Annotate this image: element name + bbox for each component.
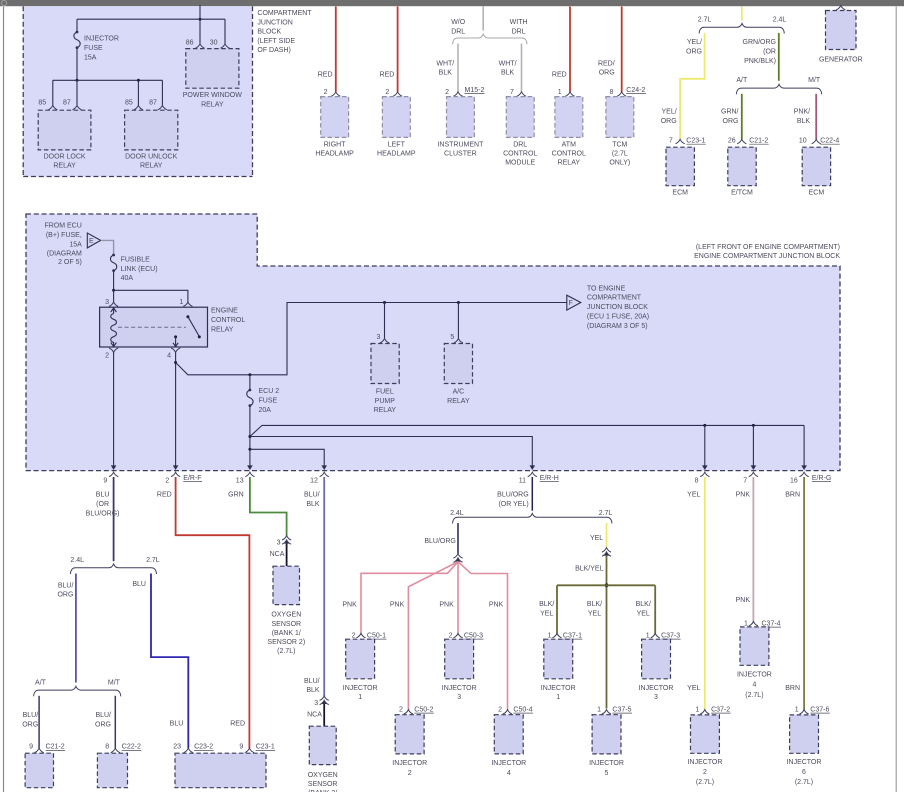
svg-text:ORG: ORG xyxy=(686,49,702,56)
svg-text:ORG: ORG xyxy=(723,118,739,125)
svg-text:C23-2: C23-2 xyxy=(194,744,213,751)
svg-text:YEL: YEL xyxy=(687,685,700,692)
node to fuel pump relay xyxy=(383,301,386,304)
svg-text:2: 2 xyxy=(498,707,502,714)
svg-text:LEFT: LEFT xyxy=(388,141,406,148)
svg-text:DRL: DRL xyxy=(512,28,526,35)
svg-text:2.4L: 2.4L xyxy=(773,16,787,23)
power window relay xyxy=(183,49,242,109)
svg-text:2 OF 5): 2 OF 5) xyxy=(58,259,82,266)
svg-text:BLU/: BLU/ xyxy=(58,582,74,589)
svg-text:RED: RED xyxy=(318,71,333,78)
pin 13 exit xyxy=(245,472,254,476)
svg-text:40A: 40A xyxy=(121,275,134,282)
svg-text:A/C: A/C xyxy=(453,389,465,396)
svg-text:C21-2: C21-2 xyxy=(46,744,65,751)
svg-text:2: 2 xyxy=(445,89,449,96)
fuel pump relay xyxy=(371,344,399,415)
wire relay pin2 down to exit 9 xyxy=(113,352,115,465)
svg-text:PNK: PNK xyxy=(342,602,357,609)
svg-text:TO ENGINE: TO ENGINE xyxy=(587,285,626,292)
wire ecu2 fuse down to exit 13 xyxy=(249,406,251,466)
wire drop pin87 door lock xyxy=(76,80,78,105)
wire PNK to injector 2 xyxy=(408,562,458,710)
svg-text:HEADLAMP: HEADLAMP xyxy=(377,151,416,158)
pin 7 C23-1 xyxy=(676,139,685,143)
svg-text:YEL: YEL xyxy=(588,610,601,617)
injector 2 (2.4L) xyxy=(392,715,427,777)
node xyxy=(76,79,79,82)
option split 2.4L / 2.7L xyxy=(70,557,159,574)
svg-text:FUEL: FUEL xyxy=(376,389,394,396)
svg-text:RED: RED xyxy=(380,71,395,78)
svg-text:ORG: ORG xyxy=(22,722,38,729)
oxygen sensor (bank 2) xyxy=(308,726,338,792)
svg-text:13: 13 xyxy=(236,478,244,485)
node xyxy=(112,289,115,292)
injector 2 (2.7L) xyxy=(688,715,723,786)
svg-text:4: 4 xyxy=(167,353,171,360)
wire YEL to injector 2 xyxy=(704,477,706,710)
pin 2 left headlamp xyxy=(393,92,402,96)
svg-text:RED/: RED/ xyxy=(598,60,615,67)
wire to injector fuse xyxy=(76,19,78,32)
svg-text:ONLY): ONLY) xyxy=(609,160,630,167)
svg-text:3: 3 xyxy=(105,299,109,306)
wire from top into box1 xyxy=(199,5,201,19)
box under C21-2 xyxy=(25,753,53,788)
svg-text:2: 2 xyxy=(399,707,403,714)
svg-text:RELAY: RELAY xyxy=(201,102,224,109)
svg-text:PNK: PNK xyxy=(736,492,751,499)
wire drop to injector 5 label xyxy=(587,601,602,617)
svg-text:1: 1 xyxy=(558,89,562,96)
svg-text:1: 1 xyxy=(556,694,560,701)
wire GRN/ORG 2.4L down xyxy=(778,33,780,81)
svg-text:(2.7L): (2.7L) xyxy=(696,779,714,786)
wire RED/ORG to tcm xyxy=(621,7,623,92)
svg-text:COMPARTMENT: COMPARTMENT xyxy=(587,295,642,302)
wire BRN to injector 6 xyxy=(803,477,805,710)
fusible link (ecu) 40A xyxy=(110,254,116,272)
injector 6 (2.7L) xyxy=(787,715,822,786)
a/c relay xyxy=(444,344,472,405)
svg-text:PUMP: PUMP xyxy=(375,398,396,405)
svg-text:3: 3 xyxy=(277,540,281,547)
svg-text:YEL: YEL xyxy=(540,610,553,617)
wire YEL 2.7L xyxy=(606,523,608,548)
to-arrow triangle F xyxy=(567,295,581,310)
wire horizontal to door relays xyxy=(53,79,163,81)
door unlock relay xyxy=(125,110,178,169)
pin 2 C50-2 xyxy=(404,710,413,714)
pin 1 C37-6 xyxy=(800,710,809,714)
svg-text:C37-2: C37-2 xyxy=(711,707,730,714)
svg-text:SENSOR 2): SENSOR 2) xyxy=(267,639,305,646)
svg-text:6: 6 xyxy=(802,769,806,776)
svg-text:BLU/: BLU/ xyxy=(304,492,320,499)
injector fuse 15A xyxy=(74,31,80,49)
wire diagonal to ecu2 fuse bus xyxy=(176,303,567,375)
svg-text:OXYGEN: OXYGEN xyxy=(271,612,301,619)
svg-text:M15-2: M15-2 xyxy=(465,87,485,94)
svg-text:INJECTOR: INJECTOR xyxy=(589,760,624,767)
svg-text:FUSE: FUSE xyxy=(84,45,103,52)
svg-text:BLU/ORG: BLU/ORG xyxy=(497,491,529,498)
svg-text:(DIAGRAM: (DIAGRAM xyxy=(47,250,82,257)
svg-text:PNK: PNK xyxy=(489,602,504,609)
svg-text:INJECTOR: INJECTOR xyxy=(737,672,772,679)
pin 1 atm control relay xyxy=(565,92,574,96)
svg-text:TCM: TCM xyxy=(612,141,627,148)
svg-text:C50-3: C50-3 xyxy=(464,633,483,640)
svg-text:9: 9 xyxy=(239,744,243,751)
pin 87 xyxy=(72,105,81,109)
svg-text:YEL: YEL xyxy=(590,535,603,542)
label: compartment junction block xyxy=(257,10,312,54)
wire BLU/ORG a/t xyxy=(38,696,40,748)
node on ecu2 fuse wire xyxy=(248,373,251,376)
svg-text:C23-1: C23-1 xyxy=(256,744,275,751)
browser chrome top bar xyxy=(0,0,904,6)
svg-text:BLK: BLK xyxy=(306,687,320,694)
svg-text:WHT/: WHT/ xyxy=(436,60,454,67)
pin 10 C22-4 xyxy=(812,139,821,143)
relay coil xyxy=(111,307,117,347)
svg-text:2: 2 xyxy=(703,769,707,776)
svg-text:INJECTOR: INJECTOR xyxy=(787,759,822,766)
generator xyxy=(819,11,863,64)
pin 2 C50-1 xyxy=(356,633,365,637)
svg-text:E: E xyxy=(89,238,94,245)
node bus upper xyxy=(248,435,251,438)
wire PNK to injector 4 xyxy=(752,477,754,622)
svg-text:1: 1 xyxy=(795,707,799,714)
svg-text:INJECTOR: INJECTOR xyxy=(688,759,723,766)
svg-text:C37-6: C37-6 xyxy=(810,707,829,714)
svg-text:YEL/: YEL/ xyxy=(687,39,702,46)
svg-text:8: 8 xyxy=(609,89,613,96)
tcm xyxy=(606,97,634,167)
svg-text:DRL: DRL xyxy=(513,141,527,148)
svg-text:NCA: NCA xyxy=(307,712,322,719)
svg-text:2.7L: 2.7L xyxy=(146,557,160,564)
svg-text:E/R-G: E/R-G xyxy=(812,475,831,482)
box under C22-2 xyxy=(97,753,127,788)
svg-text:RED: RED xyxy=(552,71,567,78)
svg-text:CONTROL: CONTROL xyxy=(503,151,537,158)
svg-text:FROM ECU: FROM ECU xyxy=(44,223,81,230)
svg-text:BLK: BLK xyxy=(797,118,811,125)
wire BLU/ORG 2.4L xyxy=(457,523,459,554)
wire drop exit 8 xyxy=(704,425,706,465)
wire fusible link to relay split xyxy=(113,271,115,291)
option split A/T / M/T xyxy=(736,77,821,94)
svg-text:WHT/: WHT/ xyxy=(499,60,517,67)
svg-text:2: 2 xyxy=(408,770,412,777)
svg-text:BLU: BLU xyxy=(170,721,184,728)
svg-text:2: 2 xyxy=(385,89,389,96)
pin 2 xyxy=(109,348,118,352)
pin 87 xyxy=(158,105,167,109)
wire WHT/BLK to drl control module xyxy=(521,44,523,92)
svg-text:A/T: A/T xyxy=(35,679,47,686)
left headlamp xyxy=(377,97,416,158)
svg-text:C24-2: C24-2 xyxy=(626,87,645,94)
svg-text:(2.7L): (2.7L) xyxy=(795,779,813,786)
pin 1 xyxy=(183,302,192,306)
svg-text:BLU/: BLU/ xyxy=(23,712,39,719)
option split 2.4L / 2.7L injectors xyxy=(450,510,612,523)
wire BLK/YEL branch bus xyxy=(557,584,655,586)
pin 2 C50-4 xyxy=(503,710,512,714)
svg-text:C50-2: C50-2 xyxy=(414,707,433,714)
pin 16 exit xyxy=(800,472,809,476)
pin 11 exit xyxy=(528,472,537,476)
svg-text:NCA: NCA xyxy=(270,551,285,558)
wire BLK/YEL down xyxy=(606,556,608,709)
svg-text:3: 3 xyxy=(457,694,461,701)
svg-text:30: 30 xyxy=(210,40,218,47)
right frame line xyxy=(895,7,897,792)
svg-text:1: 1 xyxy=(548,633,552,640)
svg-text:(LEFT FRONT OF ENGINE COMPARTM: (LEFT FRONT OF ENGINE COMPARTMENT) xyxy=(696,244,840,251)
svg-text:C50-1: C50-1 xyxy=(367,633,386,640)
svg-text:(B+) FUSE,: (B+) FUSE, xyxy=(46,232,82,239)
svg-text:ORG: ORG xyxy=(57,592,73,599)
svg-text:GRN/ORG: GRN/ORG xyxy=(743,39,776,46)
svg-text:RELAY: RELAY xyxy=(140,163,163,170)
ecm (left) xyxy=(666,147,694,196)
svg-text:85: 85 xyxy=(125,100,133,107)
ecu 2 fuse 20A xyxy=(249,375,251,390)
svg-text:BLU/: BLU/ xyxy=(304,678,320,685)
node blk/yel xyxy=(605,583,609,587)
svg-text:ENGINE COMPARTMENT JUNCTION BL: ENGINE COMPARTMENT JUNCTION BLOCK xyxy=(694,253,840,260)
wire BLU 2.7L jog xyxy=(151,574,188,749)
svg-text:C22-2: C22-2 xyxy=(122,744,141,751)
pin 2 M15-2 xyxy=(453,92,462,96)
svg-text:INJECTOR: INJECTOR xyxy=(541,685,576,692)
svg-text:ENGINE: ENGINE xyxy=(211,308,238,315)
svg-text:YEL: YEL xyxy=(687,492,700,499)
ecm (right) xyxy=(802,147,830,196)
svg-text:JUNCTION: JUNCTION xyxy=(257,19,292,26)
node at feed split xyxy=(199,18,202,21)
svg-text:INJECTOR: INJECTOR xyxy=(639,685,674,692)
svg-text:WITH: WITH xyxy=(510,19,528,26)
e/tcm xyxy=(728,147,756,196)
svg-text:8: 8 xyxy=(695,478,699,485)
exit arrows at block bottom xyxy=(111,465,117,470)
svg-text:BLK: BLK xyxy=(306,501,320,508)
svg-text:INSTRUMENT: INSTRUMENT xyxy=(437,141,484,148)
svg-text:INJECTOR: INJECTOR xyxy=(343,685,378,692)
engine control relay box xyxy=(100,307,208,347)
option split w/o drl / with drl xyxy=(451,19,527,44)
svg-text:RELAY: RELAY xyxy=(374,407,397,414)
pin 3 xyxy=(109,302,118,306)
svg-text:1: 1 xyxy=(597,707,601,714)
svg-text:COMPARTMENT: COMPARTMENT xyxy=(257,10,312,17)
node long bus to exit 7 xyxy=(752,424,755,427)
oxygen sensor (bank 1 / sensor 2) xyxy=(267,566,305,655)
wire fuse to lock relays xyxy=(76,48,78,81)
wide box under C23-2 / C23-1 xyxy=(175,753,266,788)
wire from triangle to fusible link xyxy=(101,240,114,255)
wire drop exit 7 xyxy=(752,425,754,465)
pin 2 right headlamp xyxy=(331,92,340,96)
svg-text:1: 1 xyxy=(179,299,183,306)
wire RED jog to C23-1 xyxy=(176,477,250,748)
svg-text:8: 8 xyxy=(105,744,109,751)
svg-text:3: 3 xyxy=(376,334,380,341)
svg-text:INJECTOR: INJECTOR xyxy=(491,760,526,767)
wire RED to atm control relay xyxy=(569,7,571,92)
svg-text:5: 5 xyxy=(450,334,454,341)
svg-text:LINK (ECU): LINK (ECU) xyxy=(121,266,158,273)
pin 1 C37-4 xyxy=(749,622,758,626)
svg-text:(BANK 1/: (BANK 1/ xyxy=(272,630,301,637)
svg-text:PNK: PNK xyxy=(439,602,454,609)
svg-text:2.4L: 2.4L xyxy=(450,510,464,517)
svg-text:ORG: ORG xyxy=(95,722,111,729)
wire relay pin4 down to exit 2 xyxy=(175,352,177,465)
svg-text:10: 10 xyxy=(799,138,807,145)
injector 4 (2.4L) xyxy=(491,715,526,777)
injector 3 (2.4L) xyxy=(442,639,477,701)
svg-text:C21-2: C21-2 xyxy=(749,138,768,145)
svg-text:E/TCM: E/TCM xyxy=(731,189,753,196)
svg-text:RED: RED xyxy=(157,492,172,499)
wire YEL from top xyxy=(741,7,743,21)
pin 86 xyxy=(195,44,204,48)
svg-text:C37-5: C37-5 xyxy=(612,707,631,714)
svg-text:2.4L: 2.4L xyxy=(70,557,84,564)
inline connector to blk/yel xyxy=(602,548,611,552)
pin 1 C37-5 xyxy=(602,710,611,714)
pin 7 drl control module xyxy=(517,92,526,96)
pin 8 C22-2 xyxy=(111,748,120,752)
svg-text:ECM: ECM xyxy=(672,189,688,196)
svg-text:26: 26 xyxy=(728,138,736,145)
wire PNK fan to injector 1 xyxy=(361,562,458,634)
relay switch xyxy=(173,315,201,347)
svg-text:CLUSTER: CLUSTER xyxy=(444,151,477,158)
wire drop to injector 1 xyxy=(556,585,558,633)
svg-text:(OR: (OR xyxy=(763,48,776,55)
svg-text:DOOR LOCK: DOOR LOCK xyxy=(44,153,86,160)
svg-text:16: 16 xyxy=(790,478,798,485)
svg-text:BLK: BLK xyxy=(439,70,453,77)
wire drop to injector 3 xyxy=(654,585,656,633)
label: to engine compartment junction block xyxy=(587,285,649,330)
pin 12 exit xyxy=(320,472,329,476)
svg-text:BLU/ORG): BLU/ORG) xyxy=(86,510,120,517)
svg-text:RIGHT: RIGHT xyxy=(324,141,347,148)
inline connector to pnk xyxy=(453,554,462,558)
svg-text:PNK/: PNK/ xyxy=(794,108,810,115)
svg-text:BLK/YEL: BLK/YEL xyxy=(575,565,604,572)
svg-text:C50-4: C50-4 xyxy=(513,707,532,714)
svg-text:HEADLAMP: HEADLAMP xyxy=(315,151,354,158)
svg-text:C23-1: C23-1 xyxy=(686,138,705,145)
svg-text:(ECU 1 FUSE, 20A): (ECU 1 FUSE, 20A) xyxy=(587,314,649,321)
svg-text:2.7L: 2.7L xyxy=(599,510,613,517)
wire BLU/ORG (OR YEL) down xyxy=(531,477,533,511)
node bus lower xyxy=(248,448,251,451)
injector 3 (2.7L) xyxy=(639,639,674,701)
wire drop pin87 door unlock xyxy=(161,80,163,105)
pin 4 xyxy=(171,348,180,352)
svg-text:23: 23 xyxy=(173,744,181,751)
svg-text:BLU/ORG: BLU/ORG xyxy=(424,538,456,545)
svg-text:C37-3: C37-3 xyxy=(661,633,680,640)
node to a/c relay xyxy=(457,301,460,304)
svg-text:4: 4 xyxy=(507,770,511,777)
wire to fuel pump relay pin 3 xyxy=(384,303,386,339)
injector 1 (2.7L) xyxy=(541,639,576,701)
pin 30 xyxy=(220,44,229,48)
svg-text:F: F xyxy=(569,300,573,307)
svg-text:86: 86 xyxy=(186,40,194,47)
svg-text:ATM: ATM xyxy=(562,141,576,148)
svg-text:ECU 2: ECU 2 xyxy=(259,388,280,395)
svg-text:1: 1 xyxy=(695,707,699,714)
svg-text:(2.7L): (2.7L) xyxy=(277,648,295,655)
inline connector pin 3 NCA (bank1 sensor) xyxy=(282,536,291,540)
svg-text:BLK/: BLK/ xyxy=(587,601,602,608)
pin 8 exit xyxy=(700,472,709,476)
pin 2 C50-3 xyxy=(453,633,462,637)
svg-text:FUSE: FUSE xyxy=(259,398,278,405)
svg-text:FUSIBLE: FUSIBLE xyxy=(121,256,151,263)
svg-text:M/T: M/T xyxy=(108,679,121,686)
svg-text:BLU/: BLU/ xyxy=(95,712,111,719)
node on pin4 wire xyxy=(174,361,177,364)
svg-text:2: 2 xyxy=(352,633,356,640)
svg-text:2: 2 xyxy=(449,633,453,640)
svg-text:(OR YEL): (OR YEL) xyxy=(498,501,528,508)
svg-text:(LEFT SIDE: (LEFT SIDE xyxy=(257,38,295,45)
wire RED to left headlamp xyxy=(397,7,399,92)
svg-text:(DIAGRAM 3 OF 5): (DIAGRAM 3 OF 5) xyxy=(587,323,648,330)
svg-text:85: 85 xyxy=(38,100,46,107)
engine compartment junction block xyxy=(26,214,840,471)
svg-text:CONTROL: CONTROL xyxy=(552,151,586,158)
svg-text:GRN/: GRN/ xyxy=(721,108,739,115)
wire BLU/BLK down xyxy=(323,477,325,696)
svg-text:INJECTOR: INJECTOR xyxy=(392,760,427,767)
svg-text:9: 9 xyxy=(29,744,33,751)
svg-text:M/T: M/T xyxy=(808,77,821,84)
svg-text:9: 9 xyxy=(103,478,107,485)
atm control relay xyxy=(552,97,586,167)
from-arrow triangle E xyxy=(87,233,100,248)
pin 9 C23-1 xyxy=(245,748,254,752)
pin 9 exit xyxy=(109,472,118,476)
wire drop exit 16 xyxy=(803,425,805,465)
svg-text:RELAY: RELAY xyxy=(447,398,470,405)
svg-text:BLK/: BLK/ xyxy=(539,601,554,608)
label: engine control relay xyxy=(211,308,245,334)
instrument cluster xyxy=(437,97,484,158)
svg-text:INJECTOR: INJECTOR xyxy=(442,685,477,692)
svg-text:OXYGEN: OXYGEN xyxy=(308,772,338,779)
inline connector pin 3 NCA (bank2 sensor) xyxy=(320,696,329,700)
wire drop pin85 door unlock xyxy=(137,80,139,105)
wire black to sensor 2 xyxy=(323,704,325,726)
